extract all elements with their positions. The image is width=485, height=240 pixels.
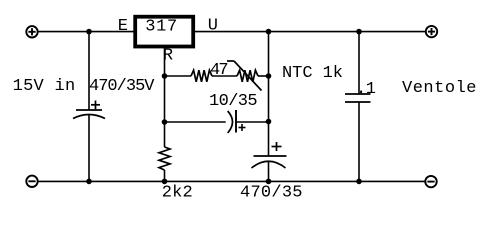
capacitor C2 470/35 [252,142,287,168]
svg-text:.1: .1 [356,80,376,99]
junction 10/35 right node [266,119,272,125]
thermistor diagonal mark [227,61,262,91]
junction bottom of 2k2 resistor [162,179,168,185]
junction bottom of 470/35 capacitor [266,179,272,185]
capacitor C1 470/35V [73,101,105,119]
svg-text:317: 317 [145,18,177,37]
capacitor .1 [345,94,371,102]
wire R node to 47 resistor [165,75,192,77]
wire R pin down from regulator [164,47,166,148]
svg-text:Ventole: Ventole [402,79,477,98]
capacitor 10/35 plus sign [239,124,246,131]
svg-text:10/35: 10/35 [209,92,258,111]
junction bottom of 470/35V capacitor [86,179,92,185]
junction top of 470/35V capacitor [86,29,92,35]
thermistor NTC 1k zigzag [237,70,258,82]
terminal minus output (bottom right) [425,176,436,187]
junction top of NTC branch [266,29,272,35]
terminal plus output (top right) [426,26,437,37]
resistor 2k2 [159,147,170,170]
wire 47 resistor to NTC [212,75,237,77]
wire .1 capacitor to bottom rail [358,102,360,181]
svg-text:2k2: 2k2 [162,183,193,202]
wire 470/35V capacitor to bottom rail [88,115,90,182]
wire output branch vertical [268,32,270,156]
wire bottom rail [38,180,426,182]
wire 470/35 capacitor to bottom rail [268,161,270,181]
terminal minus input (bottom left) [26,176,37,187]
junction R node to 47 resistor [162,73,168,79]
capacitor 10/35 curved plate [228,111,233,133]
wire 10/35 capacitor to output branch [236,121,269,123]
svg-text:NTC 1k: NTC 1k [282,64,343,83]
regulator U1 317 box [135,17,193,47]
capacitor 10/35 straight plate [235,110,237,133]
wire R node to 10/35 capacitor [165,121,226,123]
wire 2k2 to bottom rail [164,170,166,181]
wire output node down to .1 capacitor [358,32,360,94]
svg-text:15V in: 15V in [13,77,76,96]
svg-text:U: U [208,17,218,36]
wire top rail right [193,31,426,33]
junction R node to 10/35 capacitor [162,119,168,125]
svg-text:E: E [118,17,128,36]
junction bottom of .1 capacitor [356,179,362,185]
wire NTC to output branch [258,75,269,77]
svg-text:470/35V: 470/35V [89,77,155,96]
wire input node down to 470/35V capacitor [88,32,90,110]
resistor 47 [191,70,212,82]
svg-text:470/35: 470/35 [240,184,303,203]
junction NTC right node [266,73,272,79]
terminal plus input (top left) [26,26,37,37]
svg-text:47: 47 [210,61,229,80]
junction top of .1 capacitor [356,29,362,35]
wire top rail left [38,31,134,33]
